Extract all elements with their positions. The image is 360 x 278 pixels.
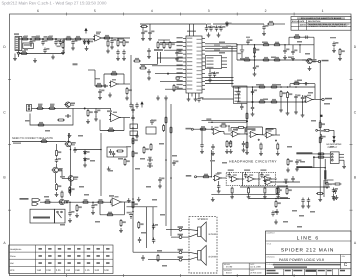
- resistor R34: [273, 44, 281, 46]
- ground C6: [71, 46, 75, 51]
- transistor Q10: [64, 102, 70, 107]
- capacitor C7: [110, 39, 113, 45]
- feedback loop box preamp: [30, 108, 73, 125]
- resistor R3: [46, 38, 54, 40]
- frame column tick top: [122, 13, 124, 16]
- wire U10 pin net: [165, 88, 183, 90]
- wire bus lower: [205, 80, 234, 82]
- ground C12c: [147, 76, 151, 81]
- capacitor C56: [73, 147, 76, 153]
- wire drop to net b: [313, 157, 315, 168]
- junction input c: [55, 38, 56, 39]
- resistor R100: [317, 153, 325, 155]
- w: [95, 107, 97, 110]
- op-amp U6A: [230, 176, 239, 182]
- capacitor C37: [251, 89, 254, 95]
- wire rail to corner: [240, 23, 264, 25]
- ground C38: [251, 112, 255, 117]
- wire crystal net: [140, 63, 158, 65]
- capacitor C96: [283, 180, 289, 183]
- wire top right pwr: [324, 179, 334, 181]
- connector J1 pin: [16, 43, 18, 45]
- connector J1b second column: [19, 37, 22, 51]
- ground right pwr: [332, 196, 336, 201]
- settings vline: [93, 245, 95, 274]
- wire amp1 bottom rail: [237, 59, 314, 61]
- op-amp U5B: [231, 131, 240, 137]
- junction preamp: [84, 108, 85, 109]
- wire R108 R109 top: [277, 185, 287, 187]
- capacitor C91: [200, 143, 203, 149]
- wire fb2 right: [314, 84, 316, 99]
- svg-text:1: 1: [322, 9, 324, 13]
- ground R94c: [276, 151, 280, 156]
- junction dot: [246, 133, 248, 135]
- resistor R109: [286, 187, 288, 195]
- wire U10 bottom pin: [188, 93, 190, 97]
- fuse F1 dark bar: [324, 170, 326, 179]
- capacitor hp stage 1: [228, 172, 231, 178]
- ground C11: [148, 36, 152, 41]
- wire bottom center net: [127, 206, 158, 208]
- net label: [288, 57, 292, 59]
- C29 plate 1: [240, 49, 244, 51]
- resistor R8: [117, 39, 119, 47]
- frame row tick right: [350, 144, 353, 146]
- wire feedback right: [123, 74, 125, 84]
- wire +15V rail: [249, 198, 290, 200]
- ground R96: [230, 194, 234, 199]
- relay K1: [107, 147, 127, 157]
- junction dot: [103, 37, 105, 39]
- net label: [297, 80, 302, 82]
- resistor R37: [339, 48, 341, 56]
- wire U10 right pin stub: [202, 45, 205, 47]
- junction dot: [63, 38, 65, 40]
- ground D6: [83, 163, 87, 168]
- resistor R58: [40, 141, 48, 143]
- op-amp U5A: [212, 129, 221, 135]
- ground R68: [75, 213, 79, 218]
- title bottom divider: [325, 269, 327, 276]
- capacitor C40: [301, 95, 304, 101]
- transistor Q5: [58, 199, 65, 204]
- connector jack stub: [316, 130, 318, 132]
- svg-text:LINE 6: LINE 6: [297, 236, 320, 242]
- junction dot: [302, 101, 304, 103]
- wire spk2 +: [189, 252, 198, 254]
- ground bc 2: [137, 197, 141, 202]
- capacitor C58: [112, 151, 115, 157]
- resistor R9: [123, 39, 125, 47]
- ground R60: [55, 192, 59, 197]
- wire U5D out: [273, 134, 280, 136]
- ground R110: [274, 220, 278, 225]
- ground C31: [253, 72, 257, 77]
- diode D0: [17, 53, 20, 56]
- ground C16 C17: [217, 33, 221, 38]
- resistor R36 feedback: [293, 36, 301, 38]
- w: [275, 129, 277, 136]
- net label NC HEADPHONE 2: [296, 166, 312, 168]
- resistor R99: [277, 187, 279, 195]
- resistor R93: [230, 140, 232, 148]
- ground R37: [338, 56, 342, 61]
- wire U10 right pin stub: [202, 88, 205, 90]
- title bottom divider: [316, 269, 318, 276]
- capacitor hp stage 3: [260, 172, 263, 178]
- capacitor C12b: [147, 48, 150, 54]
- revision table vline2: [306, 20, 308, 31]
- capacitor C72: [147, 158, 153, 161]
- filename line 2: [274, 266, 307, 268]
- wire amp2 feedback top: [290, 83, 315, 85]
- wire toward opamp U1A: [64, 38, 95, 40]
- title block hline4: [266, 268, 352, 270]
- ground C12b: [147, 54, 151, 59]
- resistor R80: [170, 126, 172, 134]
- ground R102: [286, 168, 290, 173]
- settings vline: [54, 245, 56, 274]
- ground R8: [116, 56, 120, 61]
- wire stage out: [271, 178, 277, 180]
- connector HP in left: [191, 128, 193, 130]
- wire crystal down: [157, 63, 159, 64]
- capacitor C12: [175, 50, 178, 56]
- junction dot: [42, 38, 44, 40]
- wire J5 pin out: [222, 66, 228, 68]
- net label: [219, 42, 225, 44]
- net label: [297, 226, 302, 228]
- wire U10 left pin stub: [183, 38, 186, 40]
- resistor R98: [264, 187, 266, 195]
- title bottom divider: [291, 269, 293, 276]
- capacitor C94: [211, 144, 214, 150]
- resistor R21: [267, 23, 275, 25]
- net label: [160, 214, 165, 216]
- net label: [271, 57, 276, 59]
- ground C96b: [335, 195, 339, 200]
- junction dot: [299, 44, 301, 46]
- label R106: [322, 136, 326, 138]
- wire R59 top: [56, 144, 58, 149]
- junction dot: [236, 44, 238, 46]
- wire U10 left pin stub: [183, 61, 186, 63]
- wire bus drop to amp2: [231, 46, 233, 87]
- svg-text:DESCRIPTION: DESCRIPTION: [308, 20, 321, 23]
- wire x325 down: [324, 159, 326, 184]
- wire U10 pin net: [160, 80, 183, 82]
- op-amp U5C: [249, 132, 258, 138]
- wire spk2 -: [189, 257, 198, 260]
- net label: [324, 103, 330, 105]
- resistor R62: [116, 150, 124, 152]
- op-amp U6C: [263, 176, 272, 182]
- ground R97: [247, 194, 251, 199]
- resistor R108: [276, 187, 278, 195]
- resistor R91 feedback: [220, 125, 228, 127]
- resistor R81: [132, 201, 134, 209]
- net label U10 pin: [177, 41, 183, 42]
- wire det_mute: [12, 141, 66, 143]
- net label U10 pin: [177, 49, 183, 50]
- relay K2: [146, 127, 156, 134]
- wire fb right: [123, 202, 125, 215]
- capacitor C7b: [116, 50, 119, 56]
- resistor R31: [243, 59, 251, 61]
- resistor R75: [132, 137, 134, 145]
- ground C101: [307, 204, 311, 209]
- headphone stage box 3: [259, 172, 275, 185]
- wire to R104: [325, 183, 334, 185]
- ground U1B: [108, 93, 112, 98]
- resistor R106: [319, 136, 321, 144]
- svg-text:Piano: Piano: [10, 255, 16, 258]
- junction dot: [246, 120, 248, 122]
- relay contact a: [57, 211, 59, 213]
- wire Q2 collector up: [68, 133, 70, 141]
- revision table hline2: [291, 22, 351, 24]
- wire U10 left pin stub: [183, 77, 186, 79]
- svg-text:4: 4: [151, 9, 153, 13]
- ground C95: [295, 167, 299, 172]
- wire R42 down: [280, 98, 282, 108]
- capacitor C102: [275, 209, 278, 215]
- wire hp net b: [208, 121, 247, 123]
- relay contact lever: [58, 213, 62, 218]
- net label: [310, 211, 315, 213]
- wire left vertical bus: [130, 55, 132, 104]
- capacitor C6: [71, 40, 74, 46]
- wire fb2 left: [289, 84, 291, 87]
- ground R93: [229, 149, 233, 154]
- junction amp2: [252, 101, 253, 102]
- capacitor C80: [141, 255, 144, 261]
- junction dot: [252, 86, 254, 88]
- wire junction vertical: [63, 39, 65, 54]
- revision history table: [291, 17, 351, 31]
- ground Q1: [308, 66, 312, 71]
- relay contact K1A: [130, 124, 138, 129]
- wire hp net a: [202, 120, 248, 122]
- junction dot: [117, 38, 119, 40]
- dd vline: [248, 263, 250, 276]
- capacitor C60: [91, 204, 94, 210]
- label R50: [38, 104, 43, 106]
- wire bus line: [205, 50, 237, 52]
- wire fb right: [228, 126, 230, 132]
- frame column tick bottom: [179, 274, 181, 277]
- title block hline2: [266, 254, 352, 256]
- wire hp bottom net: [211, 194, 280, 196]
- junction dot: [228, 125, 230, 127]
- capacitor hp stage 2: [244, 172, 247, 178]
- op-amp U1B: [109, 81, 119, 87]
- resistor R16: [169, 41, 171, 49]
- resistor R46: [319, 121, 321, 129]
- w: [218, 181, 220, 184]
- frame column tick top: [236, 13, 238, 16]
- ground C7: [110, 45, 114, 50]
- junction dot: [165, 159, 167, 161]
- arrow down flag: [333, 130, 335, 136]
- junction dot: [84, 108, 86, 110]
- resistor R1: [21, 38, 29, 40]
- capacitor C78b: [152, 224, 155, 230]
- wire U10 right pin stub: [202, 53, 205, 55]
- capacitor C2: [41, 40, 44, 46]
- capacitor C100: [301, 198, 304, 204]
- capacitor C51: [94, 109, 97, 115]
- wire R43 down: [287, 99, 289, 111]
- wire input net top: [19, 38, 65, 40]
- wire Q3 Q4 drop: [61, 170, 63, 178]
- wire amp2 col: [252, 87, 254, 105]
- resistor R35: [273, 59, 281, 61]
- resistor R18: [139, 67, 147, 69]
- settings vline: [44, 245, 46, 274]
- settings vline0: [35, 245, 37, 274]
- wire to speaker conn 2: [171, 236, 177, 238]
- ground U10 b: [194, 97, 198, 102]
- wire Q4 base: [62, 177, 67, 179]
- wire center drop a: [146, 207, 148, 248]
- wire bus lower: [205, 77, 234, 79]
- capacitor C7c: [122, 50, 125, 56]
- wire U3A fb: [99, 120, 101, 131]
- resistor R76: [132, 150, 134, 158]
- connector J1 input header: [15, 37, 19, 51]
- transistor Q3: [52, 167, 59, 173]
- junction dot: [254, 59, 256, 61]
- settings vline: [83, 245, 85, 274]
- frame row tick left: [8, 78, 11, 80]
- wire to U3A inp: [110, 108, 112, 115]
- wire amp2 top rail: [237, 86, 315, 88]
- wire U10 left pin stub: [183, 49, 186, 51]
- settings hline: [9, 251, 113, 253]
- ground C35: [332, 48, 336, 53]
- wire C61 up: [69, 202, 71, 210]
- wire C10 up: [142, 27, 144, 31]
- frame row tick left: [8, 209, 11, 211]
- svg-text:XPS: XPS: [10, 269, 15, 272]
- wire U10 right pin stub: [202, 80, 205, 82]
- net label: [25, 120, 30, 122]
- ground C98: [332, 194, 336, 199]
- ground R71: [119, 228, 123, 233]
- wire U10 left pin stub: [183, 69, 186, 71]
- speaker SPK1: [198, 227, 201, 237]
- wire U7 out: [273, 181, 301, 183]
- label R4: [24, 49, 28, 51]
- net label: [140, 158, 145, 160]
- resistor R78: [150, 143, 152, 151]
- connector J7 block: [234, 86, 248, 104]
- junction dot: [287, 86, 289, 88]
- wire amp1 out: [312, 61, 318, 63]
- connector speaker pin 3: [177, 251, 189, 254]
- svg-text:2: 2: [265, 9, 267, 13]
- ground C60: [91, 210, 95, 215]
- revision table hline3: [291, 25, 351, 27]
- junction dot: [92, 201, 94, 203]
- frame column tick bottom: [236, 274, 238, 277]
- resistor R68: [76, 204, 78, 212]
- label R51: [50, 104, 55, 106]
- wire input net bottom: [19, 53, 65, 55]
- net label: [162, 265, 167, 267]
- resistor R17: [133, 60, 141, 62]
- wire bus line: [205, 45, 237, 47]
- net label: [146, 186, 151, 188]
- net label: [330, 146, 334, 148]
- resistor R2: [34, 38, 42, 40]
- wire C11 up: [149, 24, 151, 30]
- resistor R56: [107, 130, 115, 132]
- wire net y187: [240, 186, 330, 188]
- capacitor C61: [68, 211, 71, 217]
- w: [241, 103, 243, 106]
- power arrow flag center: [141, 104, 143, 108]
- net label WAV R: [186, 175, 192, 177]
- diode D3: [226, 21, 229, 27]
- wire J6 pin stub: [339, 159, 344, 161]
- net label: [79, 186, 84, 188]
- wire U4A fb left: [99, 204, 101, 211]
- resistor R59: [56, 149, 58, 157]
- wire U10 right pin stub: [202, 73, 205, 75]
- settings hline: [9, 258, 113, 260]
- resistor R47: [323, 129, 331, 131]
- wire out stage net: [40, 201, 111, 203]
- C29 plate 2: [241, 51, 244, 53]
- net label U10 pin: [177, 76, 183, 77]
- resistor R90: [199, 128, 207, 130]
- net label NC HEADPHONE 1: [296, 152, 312, 154]
- capacitor C14: [205, 26, 208, 32]
- net label WAV L: [186, 128, 192, 130]
- capacitor C21: [240, 104, 243, 110]
- capacitor C93: [217, 184, 220, 190]
- junction U5D: [275, 140, 276, 141]
- junction dot: [211, 121, 213, 123]
- ground C94: [211, 151, 215, 156]
- svg-text:DRAWING: DRAWING: [267, 255, 276, 258]
- wire hp lower net: [197, 176, 212, 178]
- junction dot: [68, 141, 70, 143]
- title bottom divider: [283, 269, 285, 276]
- net label: [157, 250, 162, 252]
- wire to speaker conn 1: [166, 229, 177, 231]
- junction dot: [132, 211, 134, 213]
- capacitor C12c: [147, 69, 150, 75]
- capacitor C10: [141, 30, 144, 36]
- ground R7b: [106, 49, 110, 54]
- net label: [222, 162, 227, 164]
- wire J5 pin out: [222, 57, 228, 59]
- wire U10 bottom pin: [195, 93, 197, 97]
- junction dot: [30, 38, 32, 40]
- resistor R32: [262, 44, 270, 46]
- w: [302, 59, 306, 61]
- svg-text:6: 6: [37, 9, 39, 13]
- title block hline3: [266, 261, 352, 263]
- capacitor C43: [320, 135, 323, 141]
- w: [320, 133, 321, 136]
- ground center a: [135, 134, 139, 139]
- net label: [210, 160, 215, 162]
